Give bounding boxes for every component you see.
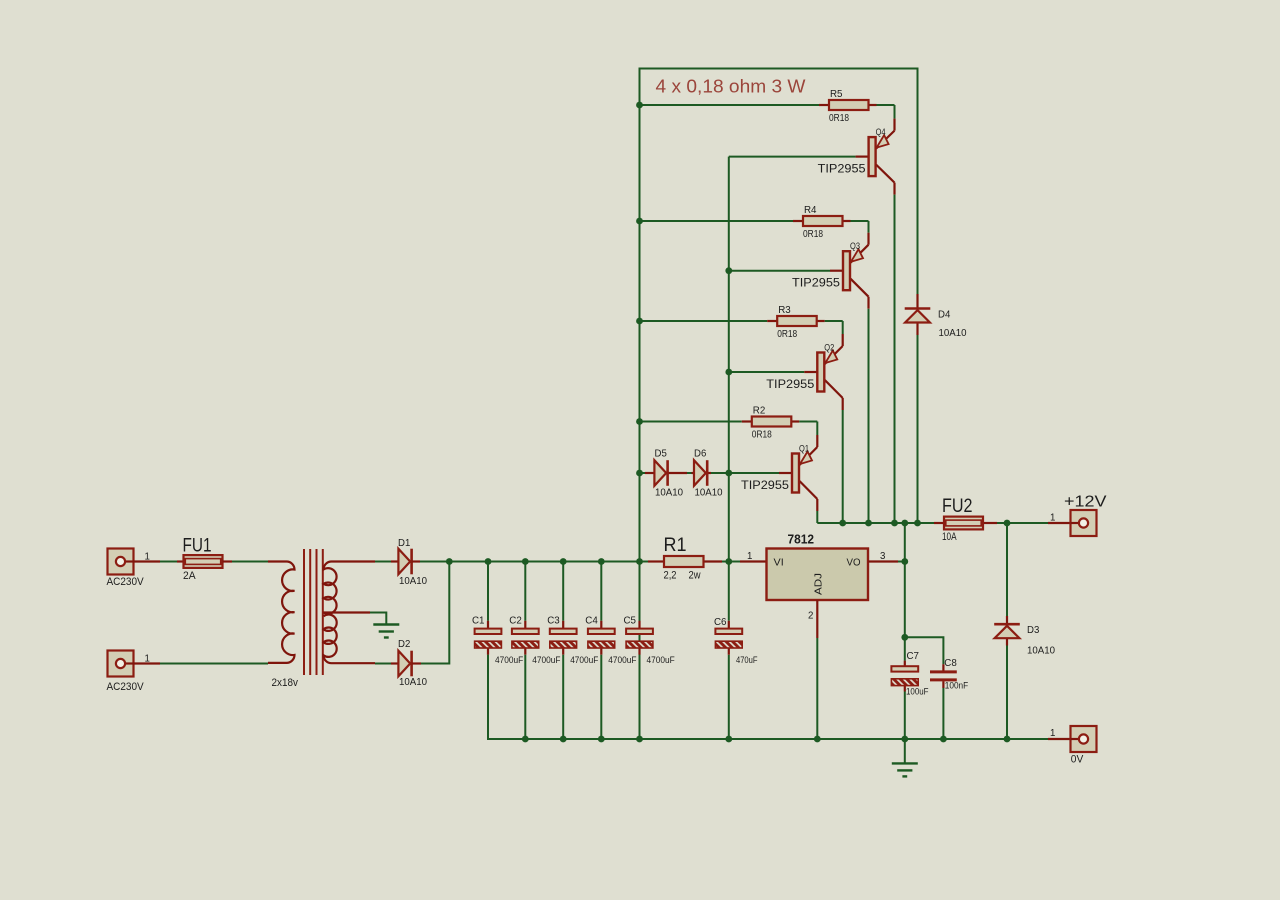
wire C6 pins <box>728 621 730 629</box>
svg-text:C3: C3 <box>547 615 560 626</box>
svg-text:C6: C6 <box>714 617 727 628</box>
svg-text:VI: VI <box>774 558 784 569</box>
wire D3 pins <box>1006 616 1008 624</box>
svg-text:D3: D3 <box>1027 625 1039 636</box>
svg-text:C2: C2 <box>509 615 522 626</box>
svg-text:Q1: Q1 <box>799 444 809 454</box>
transistor Q4 TIP2955 <box>818 105 895 523</box>
wire U1 pin3 <box>868 560 898 562</box>
svg-text:TIP2955: TIP2955 <box>741 480 789 492</box>
svg-text:0R18: 0R18 <box>777 329 797 340</box>
svg-text:Q2: Q2 <box>824 343 834 353</box>
capacitor C4 4700uF <box>585 615 637 665</box>
wire main row <box>449 561 740 563</box>
diode D3 10A10 <box>994 624 1055 656</box>
capacitor C1 4700uF <box>472 615 524 665</box>
diode D2 10A10 <box>398 639 427 688</box>
wire node3 vertical (FU2 row to C7) <box>904 523 906 661</box>
wire D5 pin <box>645 472 654 474</box>
svg-text:AC230V: AC230V <box>107 681 145 693</box>
svg-text:10A10: 10A10 <box>939 328 967 339</box>
svg-text:AC230V: AC230V <box>107 576 145 588</box>
svg-text:0R18: 0R18 <box>829 113 849 124</box>
svg-text:2: 2 <box>808 610 813 621</box>
wire sec bottom to D2 <box>375 663 391 665</box>
wire R2 row <box>640 421 742 423</box>
svg-text:0R18: 0R18 <box>752 430 772 441</box>
wire C8 branch <box>905 637 944 664</box>
wire to +12V terminal <box>1048 522 1071 524</box>
svg-text:4700uF: 4700uF <box>647 655 676 665</box>
capacitor C6 470uF <box>714 617 758 665</box>
svg-text:VO: VO <box>847 558 861 569</box>
fuse FU2 10A <box>942 496 983 543</box>
wire D3 branch <box>1006 523 1008 739</box>
wire pin2 drop <box>816 638 818 739</box>
wire R3 row <box>640 320 768 322</box>
wire FU2 row left part <box>817 522 934 524</box>
svg-text:D4: D4 <box>938 309 950 320</box>
svg-text:C7: C7 <box>907 651 920 662</box>
svg-text:7812: 7812 <box>788 533 815 547</box>
svg-text:Q4: Q4 <box>876 127 886 137</box>
wire to 0V terminal <box>1048 738 1071 740</box>
wire D6 pin <box>692 472 695 474</box>
svg-text:4 x 0,18 ohm 3 W: 4 x 0,18 ohm 3 W <box>656 76 807 97</box>
svg-text:4700uF: 4700uF <box>495 655 524 665</box>
wire VO to node <box>898 561 905 563</box>
wire cap drop <box>600 562 602 621</box>
svg-text:+12V: +12V <box>1064 494 1107 511</box>
svg-text:D1: D1 <box>398 538 410 549</box>
wire right rail lower (D4 to FU2 row) <box>917 335 919 523</box>
svg-text:C5: C5 <box>624 615 637 626</box>
transistor Q2 TIP2955 <box>766 321 842 523</box>
resistor R3 0R18 <box>777 305 817 340</box>
wire FU1 to transformer <box>223 560 233 562</box>
wire to ground <box>904 739 906 763</box>
diode D6 10A10 <box>694 449 723 499</box>
wire FU2 row right part <box>997 522 1048 524</box>
wire R5 row <box>640 104 820 106</box>
wire terminal2 to transformer <box>134 662 161 664</box>
wire Q1 base (D6 to Q1) <box>729 472 779 474</box>
svg-text:4700uF: 4700uF <box>608 655 637 665</box>
svg-text:4700uF: 4700uF <box>570 655 599 665</box>
wire cap drop <box>487 562 489 621</box>
svg-text:ADJ: ADJ <box>814 573 825 595</box>
wire bottom rail <box>488 655 1048 739</box>
svg-text:10A10: 10A10 <box>399 677 427 688</box>
wire terminal1 to FU1 <box>134 560 161 562</box>
diode D4 10A10 <box>905 309 967 339</box>
svg-text:2,2: 2,2 <box>664 570 677 582</box>
wire D2 riser <box>421 562 449 664</box>
wire cap drop <box>639 562 641 621</box>
wire cap drop <box>562 562 564 621</box>
transformer TR1 2x18v <box>268 549 375 689</box>
capacitor C5 4700uF <box>624 615 676 665</box>
wire U1 pin1 <box>740 560 767 562</box>
svg-text:C1: C1 <box>472 615 485 626</box>
wire D1 out <box>420 561 449 563</box>
svg-text:R1: R1 <box>664 535 687 556</box>
svg-text:C4: C4 <box>585 615 598 626</box>
wire U1 pin2 <box>816 600 818 638</box>
svg-text:TIP2955: TIP2955 <box>818 163 866 175</box>
svg-text:FU2: FU2 <box>942 496 973 517</box>
regulator U1 7812 <box>767 533 869 601</box>
svg-text:4700uF: 4700uF <box>532 655 561 665</box>
svg-text:TIP2955: TIP2955 <box>792 278 840 290</box>
wire C7 to rail <box>904 692 906 740</box>
wire tap to ground <box>370 613 386 624</box>
capacitor C2 4700uF <box>509 615 561 665</box>
svg-text:2A: 2A <box>183 570 196 582</box>
svg-text:D2: D2 <box>398 639 410 650</box>
transistor Q3 TIP2955 <box>792 221 869 523</box>
svg-text:100uF: 100uF <box>906 687 929 697</box>
ground (transformer center tap) <box>373 623 399 625</box>
capacitor C3 4700uF <box>547 615 599 665</box>
svg-text:10A10: 10A10 <box>399 576 427 587</box>
svg-text:R3: R3 <box>778 305 791 316</box>
resistor R4 0R18 <box>803 205 843 240</box>
wire FU2 pins <box>934 522 944 524</box>
fuse FU1 2A <box>183 536 223 583</box>
svg-text:TIP2955: TIP2955 <box>766 379 814 391</box>
wire R4 row <box>640 220 794 222</box>
wire C8 to rail <box>942 688 944 739</box>
diode D1 10A10 <box>398 538 427 587</box>
wire cap drop <box>524 562 526 621</box>
svg-text:100nF: 100nF <box>945 680 969 690</box>
svg-text:2x18v: 2x18v <box>272 677 299 689</box>
svg-text:470uF: 470uF <box>736 655 758 665</box>
svg-text:1: 1 <box>1050 512 1055 523</box>
svg-text:FU1: FU1 <box>183 536 212 557</box>
svg-text:D6: D6 <box>694 449 706 460</box>
wire R1 pins <box>648 560 664 562</box>
svg-text:10A10: 10A10 <box>655 488 683 499</box>
wire D4 pins <box>916 294 918 308</box>
wire base bus vertical <box>728 157 730 739</box>
svg-text:10A10: 10A10 <box>1027 645 1055 656</box>
svg-text:C8: C8 <box>944 658 957 669</box>
ground (output) <box>892 762 918 764</box>
resistor R2 0R18 <box>752 406 792 441</box>
svg-text:D5: D5 <box>655 449 667 460</box>
svg-text:3: 3 <box>880 551 885 562</box>
capacitor C8 100nF <box>930 658 969 690</box>
wire C7 pins <box>904 661 906 667</box>
svg-text:0R18: 0R18 <box>803 229 823 240</box>
svg-text:R5: R5 <box>830 89 843 100</box>
wire sec top to D1 <box>375 561 391 563</box>
wire Q4 base <box>729 156 856 158</box>
wire top loop <box>640 69 918 740</box>
capacitor C7 100uF <box>891 651 929 697</box>
svg-text:0V: 0V <box>1071 753 1084 765</box>
wire D5-D6 row <box>640 472 646 474</box>
svg-text:10A10: 10A10 <box>695 488 723 499</box>
terminal J1 AC230V top <box>107 549 150 589</box>
diode D5 10A10 <box>654 449 683 499</box>
resistor R5 0R18 <box>829 89 869 124</box>
terminal 0V <box>1071 726 1097 765</box>
svg-text:10A: 10A <box>942 531 957 543</box>
wire Q3 base <box>729 270 830 272</box>
terminal J2 AC230V bottom <box>107 651 150 694</box>
svg-text:R4: R4 <box>804 205 817 216</box>
transistor Q1 TIP2955 <box>741 422 817 524</box>
terminal +12V <box>1064 494 1107 536</box>
svg-text:1: 1 <box>1050 728 1055 739</box>
wire Q2 base <box>729 371 805 373</box>
svg-text:Q3: Q3 <box>850 241 860 251</box>
svg-text:2w: 2w <box>689 570 701 582</box>
wire C8 pins <box>942 664 944 670</box>
svg-text:R2: R2 <box>753 406 766 417</box>
svg-text:1: 1 <box>747 551 752 562</box>
resistor R1 2,2 2w <box>664 535 704 582</box>
